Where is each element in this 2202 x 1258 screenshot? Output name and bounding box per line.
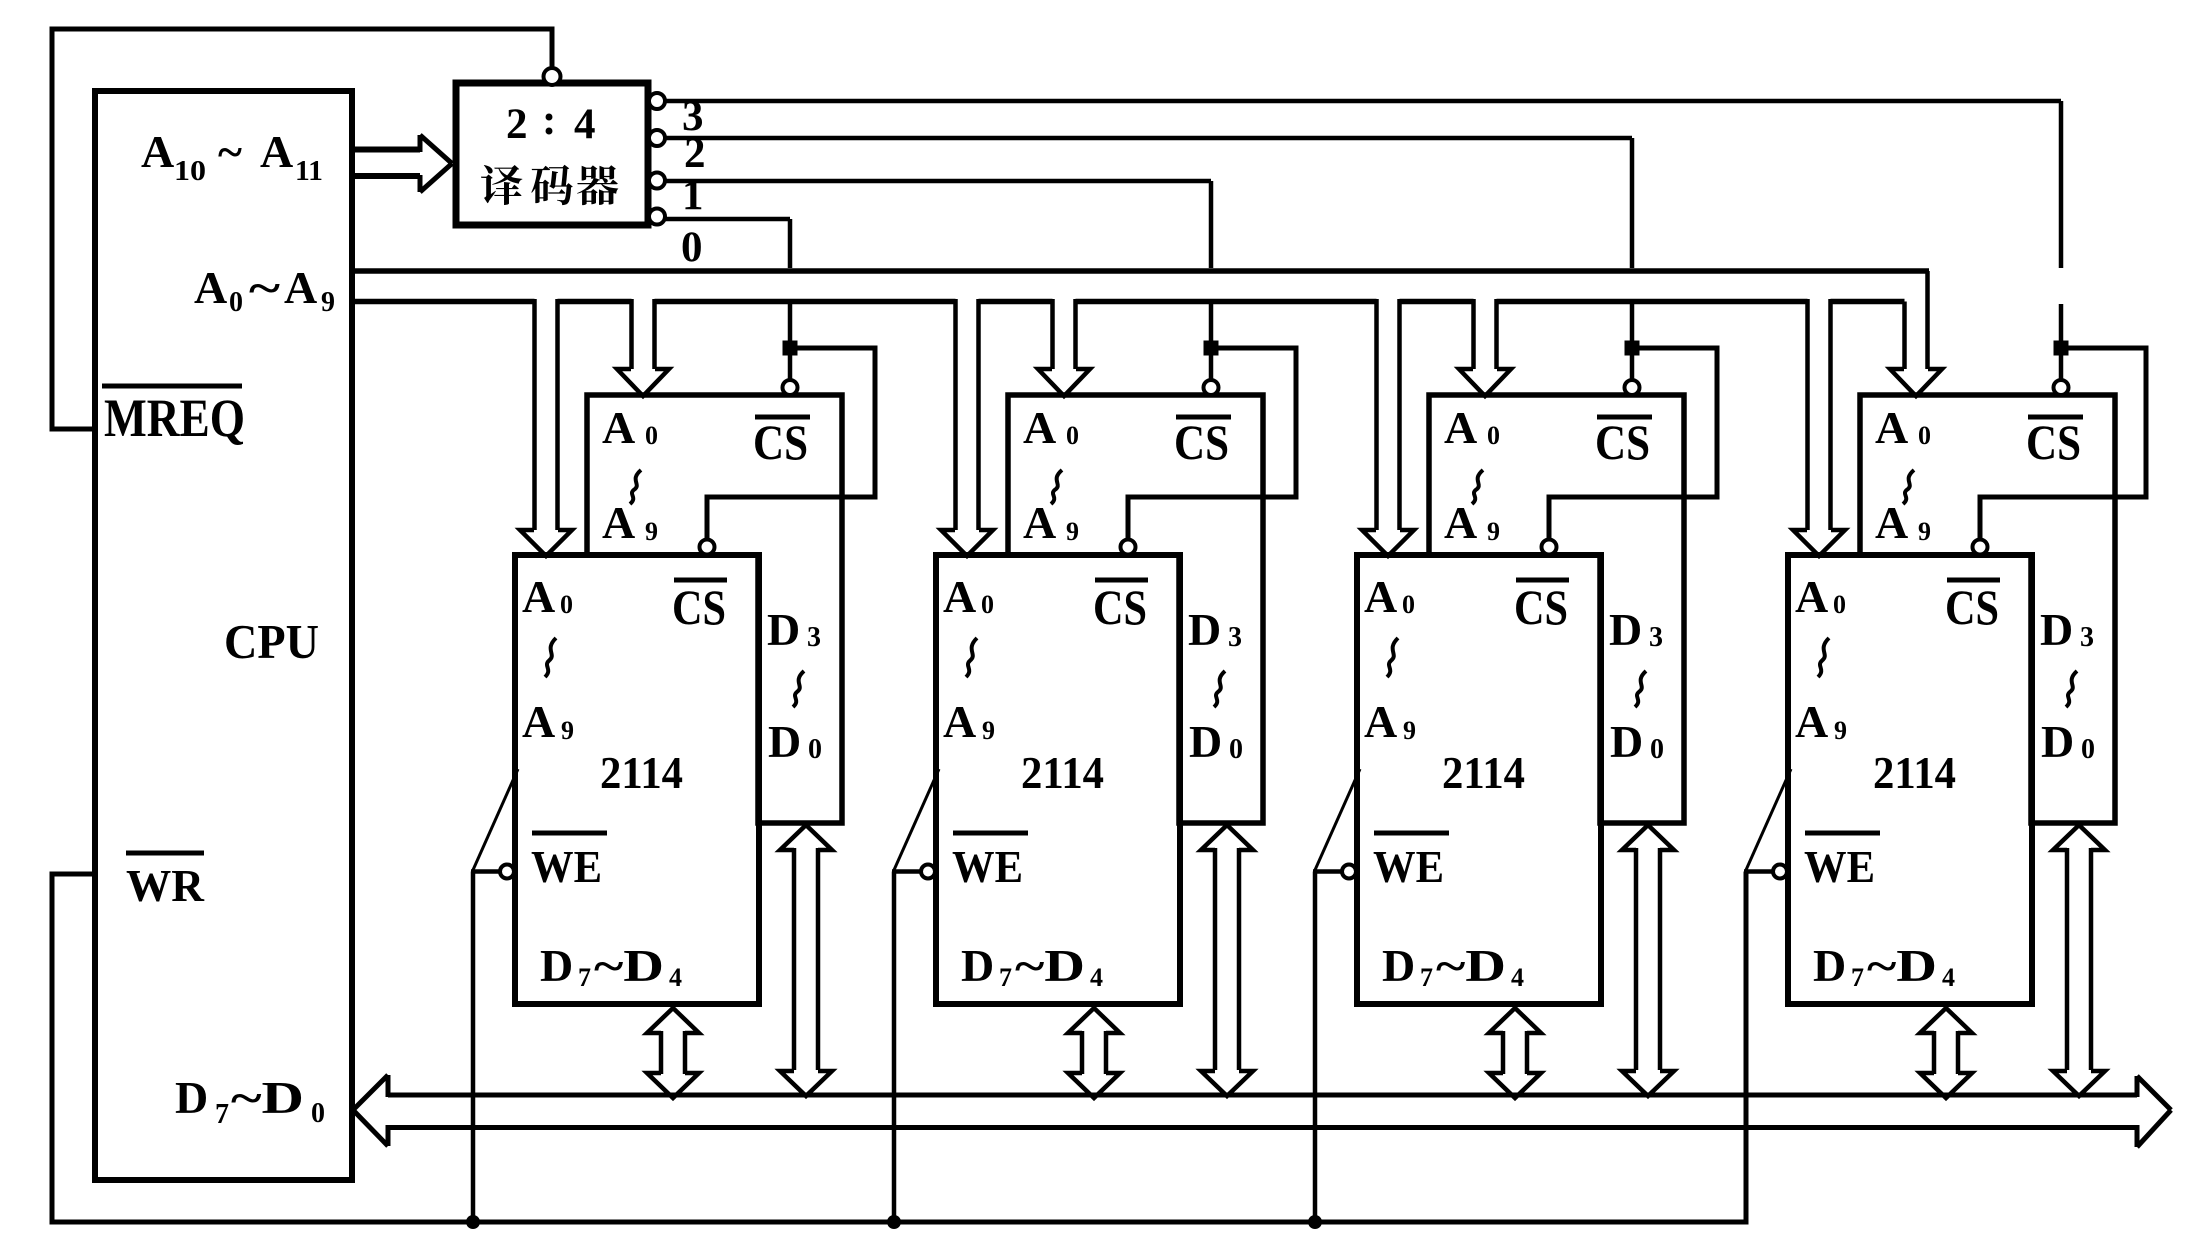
svg-text:0: 0 bbox=[1402, 590, 1415, 619]
svg-text:CS: CS bbox=[1093, 579, 1147, 635]
wire WR riser to chip 4b WE bubble bbox=[1744, 869, 1773, 874]
data arrow chip 4b D7~D4 to bus bbox=[1920, 1008, 1972, 1098]
svg-text:A: A bbox=[522, 696, 555, 747]
svg-text:A: A bbox=[1023, 402, 1056, 453]
wire MREQ to decoder enable bbox=[52, 29, 552, 429]
chip 3a squiggle D3..D0 bbox=[1635, 671, 1646, 707]
wire decoder output 0 to chip-select column bbox=[665, 219, 790, 341]
address bus A0-A9 lower line bbox=[352, 299, 1905, 305]
svg-text:0: 0 bbox=[560, 590, 573, 619]
svg-text:9: 9 bbox=[1066, 517, 1079, 546]
chip 1a data label D0 bbox=[768, 716, 822, 767]
svg-text:7: 7 bbox=[215, 1099, 229, 1130]
wire junction to chip 3b CS bbox=[1549, 348, 1717, 539]
svg-text:0: 0 bbox=[981, 590, 994, 619]
WE switch diagonal chip 2b bbox=[894, 769, 939, 870]
chip 2b CS bubble bbox=[1121, 540, 1136, 555]
svg-text:A: A bbox=[1444, 402, 1477, 453]
svg-text:4: 4 bbox=[669, 963, 682, 992]
svg-text:A: A bbox=[1444, 497, 1477, 548]
wire decoder output 1 to chip-select column bbox=[665, 181, 1211, 341]
chip 1a pin label A9 bbox=[602, 497, 658, 548]
chip 1b pin label A9 bbox=[522, 696, 574, 747]
svg-text:3: 3 bbox=[1228, 622, 1242, 653]
data arrow chip 2a D3~D0 to bus bbox=[1201, 825, 1253, 1096]
chip 3a data label D0 bbox=[1610, 716, 1664, 767]
CPU pin label MREQ (active low) bbox=[102, 386, 245, 448]
data arrow chip 2b D7~D4 to bus bbox=[1068, 1008, 1120, 1098]
svg-text:D: D bbox=[767, 604, 800, 655]
svg-text:A: A bbox=[1364, 696, 1397, 747]
svg-text:0: 0 bbox=[1833, 590, 1846, 619]
chip 4b pin label CS (active low) bbox=[1945, 579, 2000, 635]
chip 1a pin label A0 bbox=[602, 402, 658, 453]
svg-text:0: 0 bbox=[1650, 734, 1664, 765]
svg-text:A: A bbox=[602, 497, 635, 548]
svg-text:7: 7 bbox=[999, 963, 1012, 992]
decoder output bubble 0 bbox=[649, 209, 665, 225]
chip 3b WE bubble bbox=[1342, 865, 1356, 879]
svg-text:4: 4 bbox=[1942, 963, 1955, 992]
RAM chip 2114 #4a (low nibble, upper) with D3~D0 port bbox=[1860, 395, 2115, 823]
WR riser column 3 bbox=[1313, 872, 1318, 1223]
svg-text:CS: CS bbox=[1945, 579, 1999, 635]
chip 1b WE bubble bbox=[500, 865, 514, 879]
chip 4b data label D7~D4 bbox=[1813, 940, 1955, 992]
chip 4a squiggle A0..A9 bbox=[1903, 470, 1914, 504]
chip 2b pin label WE (active low) bbox=[952, 833, 1028, 892]
chip 2a pin label A9 bbox=[1023, 497, 1079, 548]
wire WR riser to chip 3b WE bubble bbox=[1313, 869, 1342, 874]
wire decoder output 3 to chip-select column bbox=[665, 101, 2061, 341]
chip 4a pin label CS (active low) bbox=[2026, 414, 2083, 470]
wire junction to chip 4b CS bbox=[1980, 348, 2146, 539]
svg-text:~: ~ bbox=[249, 262, 280, 313]
svg-text:WE: WE bbox=[1373, 841, 1444, 892]
chip 4a data label D0 bbox=[2041, 716, 2095, 767]
address branch arrow into chip 4a bbox=[1890, 271, 1942, 396]
wire decoder output 2 to chip-select column bbox=[665, 138, 1632, 341]
svg-text:~: ~ bbox=[218, 126, 242, 177]
chip 1a data label D3 bbox=[767, 604, 821, 655]
svg-text:WE: WE bbox=[1804, 841, 1875, 892]
chip-select junction dot column 2 bbox=[1204, 341, 1219, 356]
chip 3a squiggle A0..A9 bbox=[1472, 470, 1483, 504]
wire junction to chip 3a CS bubble bbox=[1630, 355, 1635, 379]
chip 2a CS bubble bbox=[1204, 380, 1219, 395]
chip 2a squiggle A0..A9 bbox=[1051, 470, 1062, 504]
chip 2b pin label CS (active low) bbox=[1093, 579, 1148, 635]
svg-text:~D: ~D bbox=[231, 1072, 304, 1123]
RAM chip 2114 #2b (high nibble, lower) bbox=[936, 555, 1180, 1004]
chip 3a data label D3 bbox=[1609, 604, 1663, 655]
svg-text:CS: CS bbox=[2026, 414, 2081, 470]
wire junction to chip 4a CS bubble bbox=[2059, 355, 2064, 379]
RAM chip 2114 #1b (high nibble, lower) bbox=[515, 555, 759, 1004]
chip 4a squiggle D3..D0 bbox=[2066, 671, 2077, 707]
chip 2a data label D0 bbox=[1189, 716, 1243, 767]
decoder output bubble 1 bbox=[649, 173, 665, 189]
data arrow chip 1a D3~D0 to bus bbox=[780, 825, 832, 1096]
chip 1b pin label WE (active low) bbox=[531, 833, 607, 892]
chip 3b pin label A0 bbox=[1364, 571, 1415, 622]
chip 3a pin label A9 bbox=[1444, 497, 1500, 548]
svg-text:A: A bbox=[1795, 696, 1828, 747]
chip 2a data label D3 bbox=[1188, 604, 1242, 655]
chip-select junction dot column 1 bbox=[783, 341, 798, 356]
RAM chip 2114 #3a (low nibble, upper) with D3~D0 port bbox=[1429, 395, 1684, 823]
svg-text:7: 7 bbox=[1420, 963, 1433, 992]
svg-text:A: A bbox=[141, 126, 174, 177]
svg-text:0: 0 bbox=[1229, 734, 1243, 765]
svg-text:A: A bbox=[1875, 402, 1908, 453]
svg-text:7: 7 bbox=[578, 963, 591, 992]
svg-text:A: A bbox=[1795, 571, 1828, 622]
data bus D7~D0 upper line bbox=[388, 1093, 2137, 1098]
wire WR riser to chip 2b WE bubble bbox=[892, 869, 921, 874]
CPU pin label D7~D0 bbox=[175, 1072, 325, 1130]
chip 2a pin label CS (active low) bbox=[1174, 414, 1231, 470]
svg-text:A: A bbox=[1364, 571, 1397, 622]
address branch arrow into chip 4b bbox=[1793, 299, 1845, 556]
svg-text:A: A bbox=[943, 571, 976, 622]
svg-text:2: 2 bbox=[506, 101, 528, 148]
svg-text:~D: ~D bbox=[1015, 940, 1085, 991]
svg-text:A: A bbox=[260, 126, 293, 177]
svg-text:9: 9 bbox=[1403, 716, 1416, 745]
address branch arrow into chip 2a bbox=[1038, 299, 1090, 396]
chip 4a CS bubble bbox=[2054, 380, 2069, 395]
wire junction to chip 2b CS bbox=[1128, 348, 1296, 539]
WE switch diagonal chip 3b bbox=[1315, 769, 1360, 870]
svg-text:7: 7 bbox=[1851, 963, 1864, 992]
svg-text:CS: CS bbox=[1174, 414, 1229, 470]
svg-text:A: A bbox=[1875, 497, 1908, 548]
svg-text:11: 11 bbox=[295, 156, 323, 187]
svg-text:A: A bbox=[1023, 497, 1056, 548]
address bus A10-A11 CPU to decoder bbox=[352, 135, 452, 192]
svg-text::: : bbox=[542, 97, 556, 144]
svg-text:4: 4 bbox=[1511, 963, 1524, 992]
WE switch diagonal chip 4b bbox=[1746, 769, 1791, 870]
chip 1a squiggle A0..A9 bbox=[630, 470, 641, 504]
svg-text:9: 9 bbox=[1487, 517, 1500, 546]
chip 1b data label D7~D4 bbox=[540, 940, 682, 992]
svg-text:A: A bbox=[194, 262, 227, 313]
chip 3a pin label CS (active low) bbox=[1595, 414, 1652, 470]
decoder output bubble 2 bbox=[649, 130, 665, 146]
chip 2b squiggle A0..A9 bbox=[966, 638, 977, 677]
chip 4b squiggle A0..A9 bbox=[1818, 638, 1829, 677]
chip 2b WE bubble bbox=[921, 865, 935, 879]
svg-text:D: D bbox=[1609, 604, 1642, 655]
svg-text:9: 9 bbox=[645, 517, 658, 546]
RAM chip 2114 #1a (low nibble, upper) with D3~D0 port bbox=[587, 395, 842, 823]
RAM chip 2114 #2a (low nibble, upper) with D3~D0 port bbox=[1008, 395, 1263, 823]
WR riser column 1 bbox=[471, 872, 476, 1223]
chip 2b pin label A0 bbox=[943, 571, 994, 622]
svg-text:A: A bbox=[602, 402, 635, 453]
chip 3a CS bubble bbox=[1625, 380, 1640, 395]
svg-text:10: 10 bbox=[174, 156, 206, 187]
data arrow chip 1b D7~D4 to bus bbox=[647, 1008, 699, 1098]
chip 3b data label D7~D4 bbox=[1382, 940, 1524, 992]
svg-text:0: 0 bbox=[311, 1098, 325, 1129]
chip 3b pin label WE (active low) bbox=[1373, 833, 1449, 892]
svg-text:D: D bbox=[1188, 604, 1221, 655]
decoder label 2:4 bbox=[506, 97, 596, 148]
address branch arrow into chip 1a bbox=[617, 299, 669, 396]
svg-text:3: 3 bbox=[807, 622, 821, 653]
chip 4a data label D3 bbox=[2040, 604, 2094, 655]
svg-text:9: 9 bbox=[1918, 517, 1931, 546]
chip 1b squiggle A0..A9 bbox=[545, 638, 556, 677]
svg-text:CS: CS bbox=[1595, 414, 1650, 470]
data bus D7~D0 lower line bbox=[388, 1125, 2137, 1130]
WR junction dot column 2 bbox=[887, 1215, 901, 1229]
chip 1b pin label A0 bbox=[522, 571, 573, 622]
data arrow chip 3b D7~D4 to bus bbox=[1489, 1008, 1541, 1098]
address bus A0-A9 upper line bbox=[352, 268, 1929, 274]
svg-text:2114: 2114 bbox=[1021, 748, 1104, 798]
svg-text:~D: ~D bbox=[1867, 940, 1937, 991]
RAM chip 2114 #3b (high nibble, lower) bbox=[1357, 555, 1601, 1004]
svg-text:D: D bbox=[175, 1072, 208, 1123]
chip 4b CS bubble bbox=[1973, 540, 1988, 555]
chip-select junction dot column 3 bbox=[1625, 341, 1640, 356]
RAM chip 2114 #4b (high nibble, lower) bbox=[1788, 555, 2032, 1004]
WR junction dot column 3 bbox=[1308, 1215, 1322, 1229]
svg-text:CS: CS bbox=[672, 579, 726, 635]
svg-text:0: 0 bbox=[808, 734, 822, 765]
svg-text:3: 3 bbox=[1649, 622, 1663, 653]
svg-text:WR: WR bbox=[126, 860, 205, 911]
data bus left arrowhead into CPU bbox=[353, 1075, 388, 1146]
svg-text:9: 9 bbox=[561, 716, 574, 745]
svg-text:CS: CS bbox=[753, 414, 808, 470]
CPU pin label A0~A9 bbox=[194, 262, 335, 318]
decoder label yimaqi (Chinese) bbox=[481, 165, 618, 205]
chip 1a pin label CS (active low) bbox=[753, 414, 810, 470]
svg-text:WE: WE bbox=[952, 841, 1023, 892]
svg-text:2114: 2114 bbox=[600, 748, 683, 798]
svg-text:D: D bbox=[768, 716, 801, 767]
svg-text:2114: 2114 bbox=[1442, 748, 1525, 798]
svg-text:A: A bbox=[522, 571, 555, 622]
chip-select junction dot column 4 bbox=[2054, 341, 2069, 356]
svg-text:0: 0 bbox=[2081, 734, 2095, 765]
svg-text:4: 4 bbox=[574, 101, 596, 148]
svg-text:D: D bbox=[1813, 940, 1846, 991]
svg-text:9: 9 bbox=[321, 287, 335, 318]
chip 4a pin label A9 bbox=[1875, 497, 1931, 548]
svg-text:WE: WE bbox=[531, 841, 602, 892]
2:4 decoder block bbox=[456, 83, 648, 225]
svg-text:D: D bbox=[961, 940, 994, 991]
WR junction dot column 1 bbox=[466, 1215, 480, 1229]
wire junction to chip 2a CS bubble bbox=[1209, 355, 1214, 379]
address branch arrow into chip 1b bbox=[520, 299, 572, 556]
CPU block U1 bbox=[95, 91, 352, 1180]
svg-text:0: 0 bbox=[1487, 421, 1500, 450]
svg-text:~D: ~D bbox=[1436, 940, 1506, 991]
svg-text:A: A bbox=[943, 696, 976, 747]
wire WR from CPU down left side and along bottom bbox=[52, 872, 1746, 1223]
svg-text:D: D bbox=[2041, 716, 2074, 767]
data arrow chip 4a D3~D0 to bus bbox=[2053, 825, 2105, 1096]
svg-text:MREQ: MREQ bbox=[104, 388, 245, 448]
svg-text:0: 0 bbox=[645, 421, 658, 450]
address branch arrow into chip 2b bbox=[941, 299, 993, 556]
chip 4b pin label A0 bbox=[1795, 571, 1846, 622]
svg-text:0: 0 bbox=[1918, 421, 1931, 450]
svg-text:~D: ~D bbox=[594, 940, 664, 991]
address branch arrow into chip 3a bbox=[1459, 299, 1511, 396]
svg-text:2114: 2114 bbox=[1873, 748, 1956, 798]
WE switch diagonal chip 1b bbox=[473, 769, 518, 870]
decoder enable bubble (top) bbox=[544, 68, 561, 85]
chip 1b pin label CS (active low) bbox=[672, 579, 727, 635]
svg-text:CS: CS bbox=[1514, 579, 1568, 635]
wire junction to chip 1b CS bbox=[707, 348, 875, 539]
chip 3b pin label CS (active low) bbox=[1514, 579, 1569, 635]
svg-text:CPU: CPU bbox=[224, 614, 319, 669]
svg-text:D: D bbox=[1382, 940, 1415, 991]
svg-text:D: D bbox=[1189, 716, 1222, 767]
wire WR riser to chip 1b WE bubble bbox=[471, 869, 500, 874]
chip 3b CS bubble bbox=[1542, 540, 1557, 555]
CPU pin label A10~A11 bbox=[141, 126, 323, 187]
chip 4b pin label A9 bbox=[1795, 696, 1847, 747]
chip 3b squiggle A0..A9 bbox=[1387, 638, 1398, 677]
data arrow chip 3a D3~D0 to bus bbox=[1622, 825, 1674, 1096]
svg-text:A: A bbox=[284, 262, 317, 313]
wire junction to chip 1a CS bubble bbox=[788, 355, 793, 379]
chip 2a pin label A0 bbox=[1023, 402, 1079, 453]
chip 1b CS bubble bbox=[700, 540, 715, 555]
chip 3b pin label A9 bbox=[1364, 696, 1416, 747]
svg-text:D: D bbox=[540, 940, 573, 991]
svg-text:D: D bbox=[2040, 604, 2073, 655]
chip 3a pin label A0 bbox=[1444, 402, 1500, 453]
svg-text:9: 9 bbox=[1834, 716, 1847, 745]
svg-text:0: 0 bbox=[681, 224, 703, 271]
address branch arrow into chip 3b bbox=[1362, 299, 1414, 556]
chip 1a squiggle D3..D0 bbox=[793, 671, 804, 707]
chip 2a squiggle D3..D0 bbox=[1214, 671, 1225, 707]
chip 4b WE bubble bbox=[1773, 865, 1787, 879]
chip 4a pin label A0 bbox=[1875, 402, 1931, 453]
chip 1a CS bubble bbox=[783, 380, 798, 395]
WR riser column 2 bbox=[892, 872, 897, 1223]
svg-text:3: 3 bbox=[2080, 622, 2094, 653]
svg-text:0: 0 bbox=[229, 287, 243, 318]
svg-text:0: 0 bbox=[1066, 421, 1079, 450]
chip 4b pin label WE (active low) bbox=[1804, 833, 1880, 892]
svg-text:D: D bbox=[1610, 716, 1643, 767]
chip 2b pin label A9 bbox=[943, 696, 995, 747]
decoder output bubble 3 bbox=[649, 93, 665, 109]
svg-text:9: 9 bbox=[982, 716, 995, 745]
data bus right arrowhead bbox=[2137, 1076, 2171, 1147]
CPU pin label WR (active low) bbox=[126, 853, 205, 911]
svg-text:4: 4 bbox=[1090, 963, 1103, 992]
chip 2b data label D7~D4 bbox=[961, 940, 1103, 992]
